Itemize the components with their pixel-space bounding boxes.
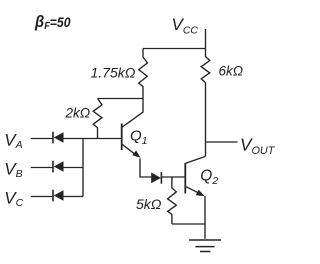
svg-text:2kΩ: 2kΩ: [65, 106, 91, 121]
svg-text:Q1: Q1: [130, 127, 148, 147]
svg-text:5kΩ: 5kΩ: [136, 196, 162, 212]
svg-text:6kΩ: 6kΩ: [219, 64, 244, 79]
svg-text:VCC: VCC: [172, 15, 199, 36]
svg-text:VC: VC: [4, 189, 23, 209]
svg-text:VOUT: VOUT: [240, 135, 276, 157]
svg-text:VA: VA: [4, 131, 22, 151]
svg-text:VB: VB: [4, 160, 22, 180]
svg-text:Q2: Q2: [200, 167, 218, 187]
svg-text:1.75kΩ: 1.75kΩ: [91, 65, 136, 81]
svg-text:βF=50: βF=50: [34, 12, 71, 32]
